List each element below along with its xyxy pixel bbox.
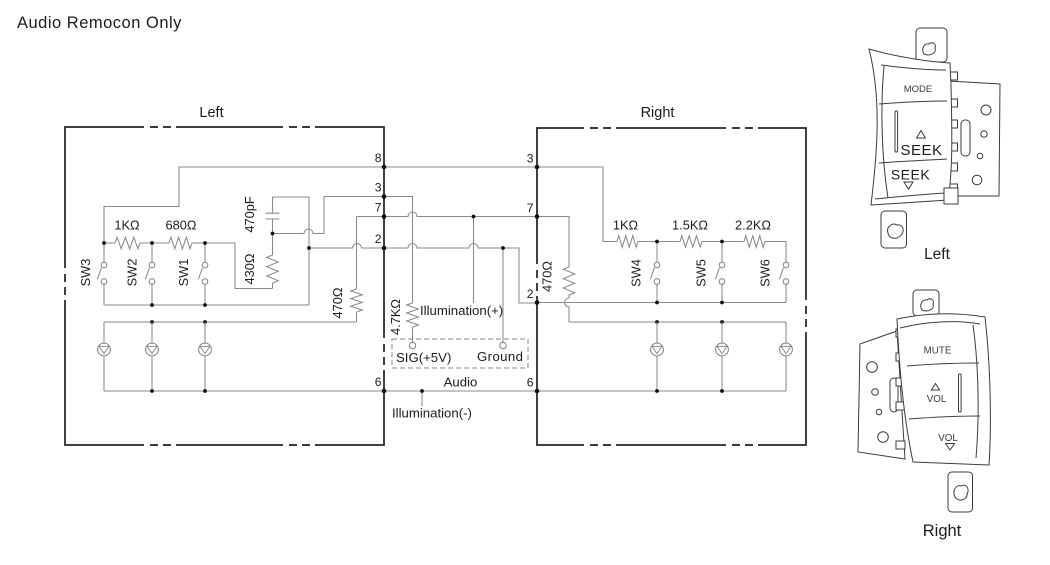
node sw5 bottom xyxy=(720,301,724,305)
node lamp2 top xyxy=(150,320,154,324)
svg-text:680Ω: 680Ω xyxy=(166,218,197,233)
wire pin3 left internal xyxy=(273,197,385,234)
connector Audio dashed box xyxy=(392,339,528,368)
svg-text:1KΩ: 1KΩ xyxy=(114,218,140,233)
svg-text:470pF: 470pF xyxy=(242,196,257,232)
pin Ground circle xyxy=(500,342,506,348)
switch SW2 xyxy=(125,243,155,305)
pin 7 right box xyxy=(527,201,540,219)
svg-text:470Ω: 470Ω xyxy=(540,261,555,292)
svg-text:Right: Right xyxy=(641,105,675,121)
lamp L3 xyxy=(199,322,212,391)
label Left caption xyxy=(924,246,951,263)
svg-text:SW4: SW4 xyxy=(629,259,644,287)
wire lamp top bus left xyxy=(104,321,357,323)
svg-text:MUTE: MUTE xyxy=(924,346,952,357)
svg-text:430Ω: 430Ω xyxy=(242,253,257,284)
node sw1 bottom xyxy=(203,303,207,307)
svg-text:6: 6 xyxy=(375,375,382,389)
wire pin6 bus xyxy=(104,390,786,392)
node lamp4 bottom xyxy=(655,389,659,393)
switch SW5 xyxy=(694,242,725,303)
wire illumination-minus leader xyxy=(421,391,423,406)
svg-text:SW1: SW1 xyxy=(176,259,191,287)
label Illumination(+) xyxy=(420,303,503,318)
svg-text:Ground: Ground xyxy=(477,349,523,364)
resistor R 470-ohm left xyxy=(330,217,384,323)
wire lamp6 column xyxy=(785,284,787,391)
label 680-ohm xyxy=(166,218,197,233)
wire pin3 right internal xyxy=(537,167,786,262)
node lamp1 top xyxy=(203,320,207,324)
wire pin2 left internal xyxy=(309,244,384,249)
resistor R 2.2K-ohm xyxy=(735,218,771,248)
label Audio xyxy=(444,375,478,390)
label Ground xyxy=(477,349,523,364)
svg-text:Illumination(+): Illumination(+) xyxy=(420,303,503,318)
svg-text:1.5KΩ: 1.5KΩ xyxy=(672,218,708,233)
wire resistor row left xyxy=(104,243,273,289)
resistor R 1K-ohm left xyxy=(115,237,140,249)
wire pin8 run to right box pin3 xyxy=(104,167,537,243)
capacitor C 470pF xyxy=(242,196,280,255)
svg-text:SW6: SW6 xyxy=(758,259,773,287)
svg-text:8: 8 xyxy=(375,151,382,165)
label Right caption xyxy=(923,522,962,540)
illustration left switch unit xyxy=(869,28,1000,248)
node cap-430 junction xyxy=(271,232,275,236)
svg-text:SEEK: SEEK xyxy=(891,167,931,183)
right connector box outline xyxy=(535,126,808,447)
wire pin2 run to right box xyxy=(384,244,537,304)
node sw4 top xyxy=(655,240,659,244)
lamp L4 xyxy=(651,322,664,391)
svg-text:7: 7 xyxy=(375,201,382,215)
resistor R 1.5K-ohm xyxy=(672,218,708,248)
svg-text:6: 6 xyxy=(527,376,534,390)
svg-text:Audio: Audio xyxy=(444,375,478,390)
svg-text:Right: Right xyxy=(923,522,962,540)
wire illumination-plus leader xyxy=(473,217,475,304)
right connector box label xyxy=(641,105,675,121)
svg-text:3: 3 xyxy=(375,181,382,195)
svg-text:Left: Left xyxy=(199,105,223,121)
label 1K-ohm left xyxy=(114,218,140,233)
node lamp1 bottom xyxy=(203,389,207,393)
node illum-minus tap xyxy=(420,389,424,393)
node lamp2 bottom xyxy=(150,389,154,393)
title text xyxy=(17,14,182,32)
switch SW4 xyxy=(629,242,660,303)
pin 2 right box xyxy=(527,287,540,305)
wire ground leader xyxy=(502,248,504,342)
pin 6 right box xyxy=(527,376,540,394)
lamp L5 xyxy=(716,322,729,391)
node sw1 top xyxy=(203,241,207,245)
left connector box label xyxy=(199,105,223,121)
switch SW1 xyxy=(176,243,208,305)
resistor R 680-ohm xyxy=(169,237,192,249)
resistor R 1K-ohm right xyxy=(613,218,639,248)
wire pin7 run xyxy=(357,212,538,217)
svg-text:470Ω: 470Ω xyxy=(330,287,345,318)
svg-text:Illumination(-): Illumination(-) xyxy=(392,406,472,421)
left connector box outline xyxy=(63,125,386,447)
svg-text:VOL: VOL xyxy=(938,433,958,444)
lamp L6 xyxy=(780,322,793,391)
svg-text:1KΩ: 1KΩ xyxy=(613,218,639,233)
svg-text:4.7KΩ: 4.7KΩ xyxy=(388,299,403,335)
svg-text:2: 2 xyxy=(527,287,534,301)
pin 7 left box xyxy=(375,201,387,219)
resistor R 470-ohm right xyxy=(537,217,575,323)
illustration right switch unit xyxy=(858,290,990,512)
node lamp5 bottom xyxy=(720,389,724,393)
node illum-plus tap xyxy=(472,215,476,219)
svg-text:7: 7 xyxy=(527,201,534,215)
node ground tap xyxy=(501,246,505,250)
node sw2 bottom xyxy=(150,303,154,307)
wire cap top to node2 vertical xyxy=(273,197,310,305)
pin SIG circle xyxy=(409,342,415,348)
node sw5 top xyxy=(720,240,724,244)
svg-text:Left: Left xyxy=(924,246,951,263)
pin 3 left box xyxy=(375,181,387,199)
pin 3 right box xyxy=(527,152,540,170)
svg-text:SEEK: SEEK xyxy=(900,142,942,159)
svg-text:MODE: MODE xyxy=(904,84,933,95)
svg-text:3: 3 xyxy=(527,152,534,166)
resistor R 4.7K-ohm xyxy=(384,197,418,343)
svg-text:2.2KΩ: 2.2KΩ xyxy=(735,218,771,233)
resistor R 430-ohm xyxy=(242,253,278,288)
svg-text:SW5: SW5 xyxy=(694,259,709,287)
label Illumination(-) xyxy=(392,406,472,421)
node switch-common xyxy=(307,246,311,250)
pin 6 left box xyxy=(375,375,387,393)
lamp L2 xyxy=(146,322,159,391)
switch SW6 xyxy=(758,242,789,303)
pin 2 left box xyxy=(375,232,387,250)
svg-text:SW3: SW3 xyxy=(78,259,93,287)
wire switch common bus xyxy=(104,304,309,306)
switch SW3 xyxy=(78,243,107,305)
wire lamp top bus right xyxy=(569,321,786,323)
node lamp5 top xyxy=(720,320,724,324)
svg-text:2: 2 xyxy=(375,232,382,246)
node lamp4 top xyxy=(655,320,659,324)
pin 8 left box xyxy=(375,151,387,169)
wire pin2 bus right xyxy=(537,302,786,304)
node sw3 row left xyxy=(102,241,106,245)
svg-text:Audio Remocon Only: Audio Remocon Only xyxy=(17,14,182,32)
svg-text:SW2: SW2 xyxy=(125,259,140,287)
label SIG(+5V) xyxy=(396,350,451,365)
node sw2 top xyxy=(150,241,154,245)
lamp L1 xyxy=(98,322,111,391)
svg-text:SIG(+5V): SIG(+5V) xyxy=(396,350,451,365)
node sw4 bottom xyxy=(655,301,659,305)
svg-text:VOL: VOL xyxy=(927,394,947,405)
